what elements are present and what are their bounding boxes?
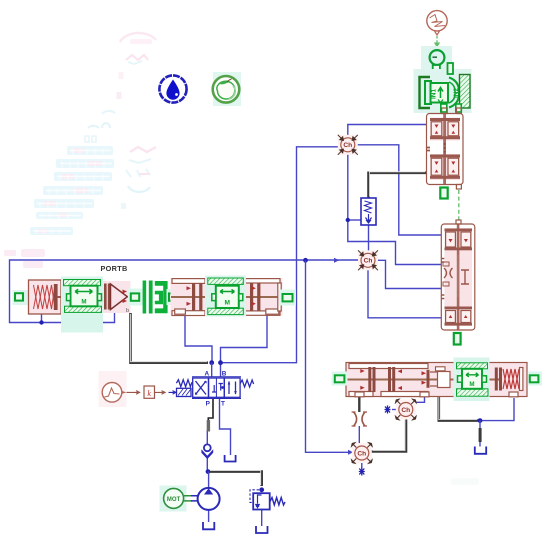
wire: B-junction to x296 riser to Ch1 left [221,147,341,363]
wire: stub to OW valve left [348,219,361,221]
wire: cylinder portB down to B junction [221,314,268,377]
cone coupler [103,281,131,313]
left port notches [427,148,431,151]
right spring [240,380,254,387]
drain stub plug [479,428,482,442]
wire: P line blue part into check valve [206,430,208,470]
wire: dark link P port down [208,399,213,422]
wire: left loop from port under M-box to Ch2 [10,260,360,323]
green port under VB1 [440,188,447,199]
wire: dark link VB1 to OW valve [369,173,427,198]
selection highlight behind tachometer [421,46,452,69]
wire: Ch2 right to VB2 port3 [376,260,441,288]
section bands [430,118,460,121]
wire: assembly2 right port down [480,398,514,421]
wire: dark link assembly2 port to right junction [439,393,478,421]
watermark ghost marks [4,33,479,485]
svg-text:M: M [224,300,230,307]
wire: assembly2 port to Ch3 top [411,397,424,405]
green port under VB2 [454,333,461,345]
wire: pump outlet to tank [208,510,210,522]
pump P1 [198,488,220,510]
wire: Ch1 top to valve block VB1 left port [348,125,426,138]
electric motor MOT [160,486,199,512]
top stems [442,108,448,114]
center bar [457,225,460,330]
svg-text:M: M [469,381,474,388]
hatched wall [460,75,471,109]
signal wire dashed green arrow [434,36,440,48]
sensor Ch4 [352,443,373,464]
node: junction loop top [303,258,308,263]
port green assembly2 right [528,372,543,386]
bottom stems [441,104,447,112]
star terminator near Ch3 [385,406,391,414]
wire: relief valve to tank [261,510,263,527]
star terminator under Ch4 [359,468,365,476]
right square parallel arrows [229,382,236,395]
svg-text:Ch: Ch [364,258,373,265]
wire: Ch1 right to VB2 port1 [356,145,442,235]
relief valve RV1 [250,490,285,510]
wire: dark link assembly2 left port to orifice [358,397,360,413]
gain k [127,386,166,398]
node: junction relief tee [259,487,264,492]
cylinder group right of clutch [171,278,283,316]
node: junction B [218,360,223,365]
svg-text:IN1: IN1 [430,89,437,100]
svg-text:PORTB: PORTB [101,264,128,273]
wire: orifice to Ch4 [358,426,360,445]
wire: junction to pump inlet [208,472,210,488]
icon water drop [159,75,186,102]
node: junction above pump [206,469,211,474]
wire: dark link pump junction to relief [210,472,262,486]
wire arrow into Ch2 [334,258,339,263]
right spring section [495,368,498,391]
rails [192,377,241,399]
main schematic [10,125,515,534]
svg-text:M: M [81,299,86,306]
node: junction A [209,360,214,365]
node: junction at OW stub [346,218,350,222]
middle small marks [444,143,446,153]
svg-text:k: k [147,389,151,398]
svg-text:Ch: Ch [401,407,410,414]
svg-text:b: b [126,308,129,314]
centre square blocked [215,378,217,397]
top stem [456,220,461,224]
svg-text:Ch: Ch [357,450,366,457]
wire: Ch4 bottom to star [361,462,363,469]
signal source W2 [99,371,127,407]
node: junction right drain [478,418,483,423]
port green assembly2 left [332,372,348,386]
wire: dark link Ch3 bottom to Ch4 right [372,418,407,452]
body squares [193,378,209,397]
clutch (green) [143,281,168,314]
middle spool [444,268,453,278]
tank under pump [203,522,214,529]
svg-text:A: A [204,370,209,377]
wire: drain stub to tank [479,442,481,447]
wire: vertical x306 down to Ch4 [306,260,354,452]
svg-text:MOT: MOT [167,497,181,503]
tank T-line [225,455,236,462]
labels A B P T [204,370,226,407]
wire: valve T port to tank [220,399,231,456]
svg-text:T: T [221,401,225,408]
signal source W1 (top right) [427,11,447,35]
check valve CV1 [201,444,213,459]
right jaw with IN2 [449,78,459,108]
left small stubs [441,259,444,299]
port green mid [128,289,143,306]
bottom right stem [456,185,461,190]
motor mass M1 [61,277,103,333]
tank under relief valve [256,526,268,533]
chamber squares bottom [446,311,456,323]
wire: dark link left cylinder to A junction [131,313,209,363]
wire: A junction to valve A port [211,363,213,377]
wire: OW bottom to Ch2 top [368,225,370,253]
sensor Ch3 [396,399,417,420]
port green right of clutch [167,289,180,305]
sensor Ch1 [338,135,358,155]
input arrow [169,391,176,395]
red arrows [449,239,468,318]
green dashed link VB1 to VB2 [458,190,460,223]
bracket [420,77,431,108]
motor mass M3 [454,358,490,402]
icon apple [213,72,241,106]
wire arrow into Ch4 [348,450,353,455]
left spring [176,380,192,387]
port green far right [279,290,296,306]
wire: Ch2 bottom to VB2 port4 [368,268,441,318]
center bar [443,114,446,184]
proportional solenoid [177,388,192,396]
wire: cylinder portA down to A junction [185,314,212,363]
wire: stub spring-box bottom to loop [41,312,43,323]
bands [445,229,473,232]
valve block VB1 (upper) [427,108,464,189]
port green left [13,290,28,305]
wire: junction to drain stub [479,421,481,428]
sensor Ch2 [358,250,378,270]
mid bracket spool [427,370,430,388]
wire: Ch3 left stub to star [392,409,397,411]
chamber squares top [446,232,456,247]
svg-text:P: P [206,401,211,408]
node: junction on loop [39,320,43,324]
red arrows [435,125,456,173]
svg-text:B: B [222,370,227,377]
spring cartridge [29,280,63,314]
green mass element U2 [420,63,471,112]
left square crossed arrows [196,381,207,395]
chamber squares [431,122,442,136]
valve block VB2 (lower) [441,220,475,330]
relief valve OW [361,198,376,225]
tank right drain [475,447,486,454]
selection highlight behind green mass-valve [414,69,472,113]
tachometer U1 [430,50,445,74]
orifice (restrictor) [352,412,367,426]
motor mass M2 [205,276,246,317]
wire: Ch1 bottom to VB2 port2 [348,153,441,265]
top stems [448,63,454,74]
inner box with arrow [431,83,449,103]
svg-text:Ch: Ch [343,142,352,149]
